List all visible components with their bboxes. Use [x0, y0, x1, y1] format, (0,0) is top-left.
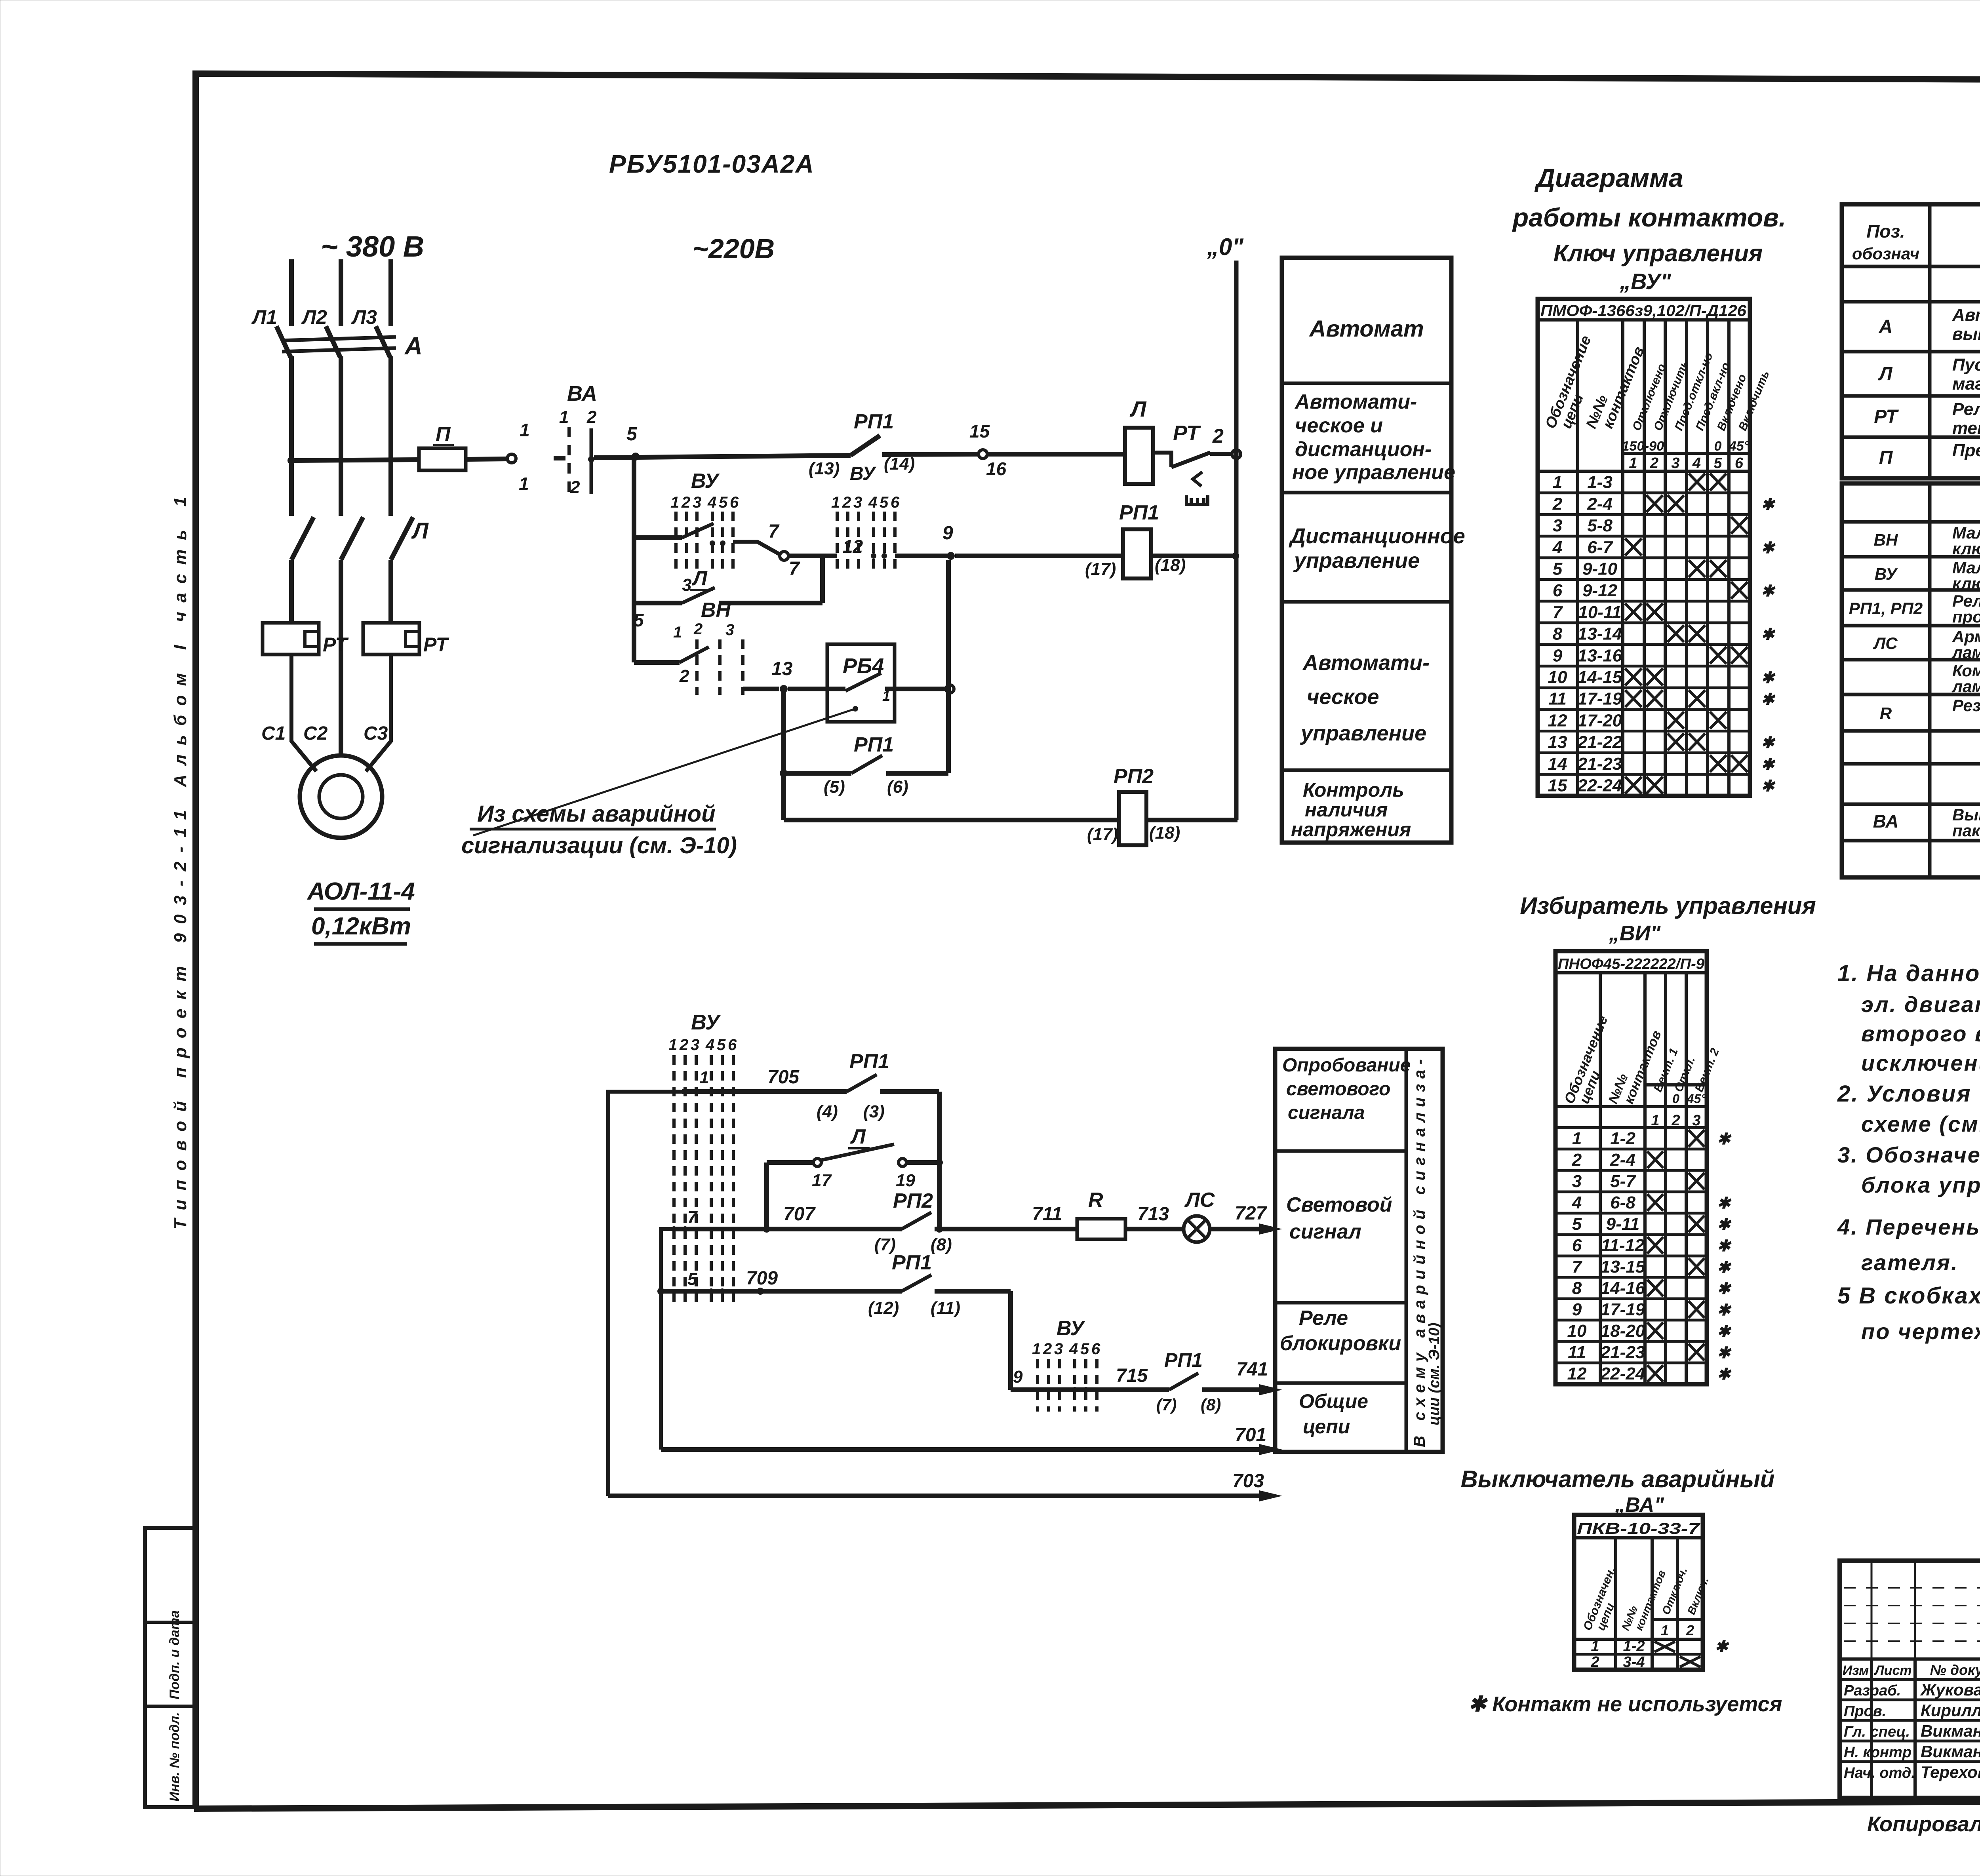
svg-text:блокировки: блокировки: [1280, 1332, 1401, 1355]
svg-text:(8): (8): [931, 1235, 952, 1254]
svg-text:1: 1: [1661, 1622, 1669, 1638]
svg-text:Реле: Реле: [1299, 1307, 1348, 1330]
emergency switch VA contact table: [1574, 1515, 1729, 1671]
svg-text:5: 5: [1553, 559, 1563, 579]
svg-text:Кириллова: Кириллова: [1921, 1701, 1980, 1720]
svg-text:707: 707: [783, 1204, 816, 1225]
svg-text:2: 2: [679, 1036, 688, 1054]
svg-text:2: 2: [1650, 455, 1658, 472]
svg-text:2: 2: [679, 666, 689, 686]
svg-text:(17): (17): [1085, 559, 1116, 579]
row 707: light signal: [671, 1189, 1077, 1254]
svg-text:6: 6: [730, 494, 739, 511]
svg-text:5: 5: [1713, 455, 1722, 472]
svg-text:(14): (14): [884, 454, 915, 474]
svg-text:„ВУ": „ВУ": [1619, 269, 1672, 294]
svg-text:11: 11: [1548, 689, 1567, 709]
svg-text:ВН: ВН: [1874, 531, 1898, 549]
margin stamp boxes: [145, 1528, 196, 1807]
svg-text:С3: С3: [364, 723, 388, 744]
svg-text:Разраб.: Разраб.: [1844, 1682, 1901, 1699]
svg-text:13-16: 13-16: [1578, 646, 1622, 665]
svg-text:Викманис: Викманис: [1921, 1742, 1980, 1761]
svg-text:РП1: РП1: [854, 733, 894, 756]
key VU contact table: [1538, 299, 1776, 796]
svg-text:7: 7: [1572, 1257, 1583, 1277]
svg-text:светового: светового: [1286, 1079, 1390, 1100]
svg-text:✱: ✱: [1761, 778, 1776, 795]
svg-text:Л1: Л1: [251, 306, 277, 328]
svg-text:РП1: РП1: [854, 410, 894, 433]
svg-text:блока управления.: блока управления.: [1861, 1172, 1980, 1197]
relay contact RP1 (5)-(6): [780, 733, 948, 797]
svg-text:2: 2: [842, 494, 851, 511]
svg-text:5: 5: [634, 610, 644, 630]
svg-text:✱: ✱: [1717, 1237, 1732, 1255]
wire to coil RP2: [784, 818, 1119, 822]
svg-text:Копировал: Тук: Копировал: Тук: [1867, 1812, 1980, 1836]
svg-text:Ключ управления: Ключ управления: [1554, 240, 1763, 266]
svg-text:15: 15: [969, 421, 990, 441]
svg-text:5: 5: [717, 1036, 726, 1054]
svg-text:тепловое: тепловое: [1952, 419, 1980, 438]
notes 1-5: [1837, 961, 1980, 1344]
motor M (AOL-11-4): [300, 755, 382, 838]
svg-text:7: 7: [789, 558, 800, 579]
svg-text:работы контактов.: работы контактов.: [1512, 203, 1786, 232]
svg-text:РП1: РП1: [1119, 501, 1159, 524]
svg-text:3: 3: [691, 1036, 699, 1054]
wire outer loop left: [608, 1092, 682, 1496]
svg-text:(7): (7): [1156, 1395, 1177, 1414]
svg-text:22-24: 22-24: [1600, 1364, 1645, 1383]
wire L2 feeder mid: [339, 356, 343, 516]
wire RB4 to riser V3: [885, 687, 946, 691]
svg-text:1: 1: [1553, 473, 1562, 492]
wire to node 15: [882, 454, 977, 455]
svg-text:705: 705: [767, 1067, 800, 1088]
svg-text:1: 1: [1572, 1129, 1582, 1148]
svg-text:150: 150: [1622, 439, 1645, 454]
svg-text:✱: ✱: [1717, 1280, 1732, 1298]
svg-text:ВУ: ВУ: [850, 463, 877, 484]
svg-text:4: 4: [705, 1036, 714, 1054]
wire pole3 to motor: [366, 655, 391, 771]
wire L3 feeder mid: [388, 356, 393, 516]
svg-text:✱: ✱: [1761, 691, 1776, 708]
title block: [1840, 1561, 1980, 1800]
svg-text:✱: ✱: [1761, 496, 1776, 513]
wire VN to node 13: [743, 687, 779, 691]
svg-text:6-8: 6-8: [1610, 1193, 1635, 1212]
svg-text:✱: ✱: [1717, 1323, 1732, 1340]
svg-text:Жукова: Жукова: [1920, 1680, 1980, 1699]
svg-text:(13): (13): [809, 459, 840, 478]
svg-text:Л2: Л2: [301, 306, 327, 328]
svg-text:5: 5: [880, 494, 889, 511]
function description column bottom: [1275, 1049, 1443, 1452]
svg-text:✱: ✱: [1717, 1344, 1732, 1362]
key VU contact group 2: [831, 494, 900, 569]
contactor L main contacts: [291, 517, 429, 560]
riser row709 to row715: [1008, 1291, 1013, 1390]
svg-text:Инв. № подл.: Инв. № подл.: [167, 1712, 182, 1802]
svg-text:Общие: Общие: [1299, 1390, 1368, 1412]
svg-text:6: 6: [1091, 1340, 1100, 1358]
svg-text:1: 1: [668, 1036, 677, 1054]
svg-text:1-2: 1-2: [1610, 1129, 1635, 1148]
title: contact operation diagram: [1512, 163, 1786, 294]
fuse P: [419, 423, 466, 470]
svg-text:✱: ✱: [1761, 669, 1776, 687]
svg-text:9-11: 9-11: [1606, 1214, 1640, 1234]
svg-text:13-15: 13-15: [1601, 1257, 1645, 1277]
svg-text:ЛС: ЛС: [1184, 1189, 1215, 1212]
node 9: [947, 552, 955, 560]
svg-text:13: 13: [771, 658, 793, 679]
junction on L1 for control tap: [287, 457, 295, 464]
svg-text:Автоматический: Автоматический: [1952, 305, 1980, 325]
svg-text:✱: ✱: [1717, 1259, 1732, 1276]
svg-text:~ 380 В: ~ 380 В: [321, 230, 424, 263]
node 7: [768, 521, 800, 579]
svg-text:5: 5: [1080, 1340, 1089, 1358]
svg-text:(17): (17): [1087, 825, 1118, 844]
svg-text:выключатель: выключатель: [1952, 324, 1980, 344]
svg-text:ВА: ВА: [567, 382, 597, 405]
resistor R: [1077, 1189, 1125, 1239]
svg-text:1: 1: [1032, 1340, 1041, 1358]
svg-text:2: 2: [570, 478, 580, 497]
svg-text:3. Обозначение „ О" соответ: 3. Обозначение „ О" соответствует заводс…: [1837, 1142, 1980, 1167]
svg-text:9-12: 9-12: [1582, 581, 1618, 600]
riser right of test row: [937, 1092, 942, 1229]
svg-text:дистанцион-: дистанцион-: [1295, 438, 1432, 461]
svg-text:713: 713: [1137, 1204, 1169, 1225]
circuit breaker A: [276, 326, 423, 360]
svg-text:✱ Контакт не используется: ✱ Контакт не используется: [1468, 1692, 1782, 1716]
svg-text:Л: Л: [850, 1125, 866, 1148]
svg-text:7: 7: [687, 1207, 698, 1227]
svg-text:управление: управление: [1293, 549, 1420, 573]
svg-text:ПКВ-10-33-7: ПКВ-10-33-7: [1577, 1520, 1700, 1537]
svg-text:7: 7: [768, 521, 780, 542]
svg-text:13: 13: [1548, 733, 1567, 752]
svg-text:А: А: [1879, 316, 1893, 337]
contactor L aux contact row: [767, 1125, 943, 1229]
svg-text:2: 2: [1686, 1622, 1694, 1638]
svg-text:4: 4: [1692, 455, 1701, 472]
wire to switch BA: [554, 456, 565, 460]
svg-text:А: А: [404, 333, 423, 360]
svg-text:1-3: 1-3: [1587, 473, 1613, 492]
svg-text:Л: Л: [411, 518, 429, 544]
row 715: blocking relay: [1011, 1317, 1282, 1414]
svg-text:10-11: 10-11: [1578, 603, 1621, 622]
svg-text:ческое: ческое: [1307, 685, 1379, 709]
svg-text:701: 701: [1235, 1425, 1266, 1446]
svg-text:4. Перечень аппаратов пр: 4. Перечень аппаратов приведен для одног…: [1837, 1214, 1980, 1239]
svg-text:цепи: цепи: [1303, 1416, 1350, 1438]
svg-text:5: 5: [719, 494, 728, 511]
svg-text:обознач: обознач: [1852, 244, 1919, 263]
svg-text:3: 3: [1054, 1340, 1063, 1358]
svg-text:2-4: 2-4: [1587, 494, 1613, 514]
title: selector VI: [1520, 892, 1816, 945]
svg-text:12: 12: [1548, 711, 1567, 730]
svg-text:АОЛ-11-4: АОЛ-11-4: [307, 878, 415, 905]
svg-text:Поз.: Поз.: [1866, 221, 1905, 242]
svg-text:715: 715: [1116, 1365, 1148, 1386]
node 15/16: [969, 421, 1007, 479]
svg-text:ВУ: ВУ: [1057, 1317, 1085, 1340]
svg-text:3: 3: [1572, 1172, 1582, 1191]
svg-text:Диаграмма: Диаграмма: [1534, 163, 1683, 192]
svg-text:(11): (11): [931, 1298, 960, 1318]
svg-text:9-10: 9-10: [1582, 559, 1618, 579]
svg-text:5-8: 5-8: [1587, 516, 1613, 535]
svg-text:709: 709: [746, 1268, 778, 1289]
svg-text:14: 14: [1548, 754, 1567, 774]
wire pole3 lower: [388, 560, 393, 623]
svg-text:✱: ✱: [1717, 1301, 1732, 1319]
svg-text:5 В скобках указаны номе: 5 В скобках указаны номера контактов рел…: [1837, 1283, 1980, 1309]
svg-text:Лист: Лист: [1873, 1663, 1911, 1678]
function description column top: [1282, 258, 1465, 843]
svg-text:5-7: 5-7: [1610, 1172, 1636, 1191]
contactor coil L: [1125, 396, 1153, 484]
svg-text:4: 4: [1572, 1193, 1582, 1212]
svg-text:6: 6: [1572, 1236, 1582, 1255]
svg-text:✱: ✱: [1717, 1130, 1732, 1148]
svg-text:✱: ✱: [1715, 1638, 1729, 1655]
svg-text:19: 19: [896, 1171, 915, 1190]
svg-text:второго вентилятора схема: второго вентилятора схема аналогична , з…: [1861, 1021, 1980, 1046]
svg-text:Л: Л: [1878, 363, 1893, 384]
svg-text:1: 1: [699, 1068, 709, 1087]
wire coil RP1 to bus: [1151, 554, 1236, 558]
svg-text:пакетно-кулачковый: пакетно-кулачковый: [1952, 821, 1980, 840]
riser V6 from node13 down: [781, 689, 786, 820]
svg-text:2: 2: [1212, 425, 1224, 447]
svg-text:сигнала: сигнала: [1288, 1102, 1365, 1123]
key VU contact group 1: [670, 470, 739, 595]
node 13: [780, 685, 788, 693]
svg-text:Пускатель: Пускатель: [1952, 355, 1980, 375]
svg-text:✱: ✱: [1761, 539, 1776, 557]
svg-text:21-23: 21-23: [1600, 1343, 1645, 1362]
svg-text:ции (см. Э-10): ции (см. Э-10): [1426, 1323, 1443, 1425]
svg-text:„0": „0": [1207, 234, 1244, 260]
svg-text:Реле: Реле: [1952, 400, 1980, 419]
svg-text:Нач. отд.: Нач. отд.: [1844, 1765, 1915, 1781]
svg-text:Л: Л: [691, 567, 708, 590]
svg-text:45°: 45°: [1729, 439, 1750, 454]
svg-text:10: 10: [1567, 1321, 1587, 1341]
svg-text:45°: 45°: [1687, 1092, 1706, 1106]
svg-text:РП2: РП2: [1114, 765, 1154, 788]
svg-text:711: 711: [1032, 1204, 1062, 1225]
svg-text:3: 3: [725, 621, 734, 639]
svg-text:21-23: 21-23: [1577, 754, 1622, 774]
svg-text:Предохранитель: Предохранитель: [1952, 441, 1980, 460]
svg-text:РТ: РТ: [423, 634, 449, 656]
svg-text:Гл. спец.: Гл. спец.: [1844, 1724, 1910, 1740]
svg-text:2: 2: [693, 620, 703, 638]
svg-text:6: 6: [891, 494, 900, 511]
svg-text:управление: управление: [1300, 721, 1426, 745]
svg-text:0: 0: [1672, 1092, 1679, 1106]
svg-text:3: 3: [1553, 516, 1562, 535]
svg-text:(12): (12): [868, 1298, 899, 1318]
svg-text:ВН: ВН: [701, 599, 731, 622]
selector VI contact table: [1555, 951, 1732, 1384]
svg-text:Подп. и дата: Подп. и дата: [167, 1610, 182, 1699]
svg-text:6: 6: [728, 1036, 737, 1054]
svg-text:№ докум.: № докум.: [1930, 1662, 1980, 1678]
svg-text:R: R: [1088, 1189, 1103, 1212]
svg-text:РБУ5101-03А2А: РБУ5101-03А2А: [609, 150, 815, 178]
svg-text:9: 9: [942, 523, 953, 544]
svg-text:Световой: Световой: [1286, 1193, 1392, 1216]
svg-text:17-19: 17-19: [1601, 1300, 1645, 1319]
svg-text:14-15: 14-15: [1578, 668, 1622, 687]
svg-text:3: 3: [853, 494, 862, 511]
wire group2 to node 9: [895, 554, 948, 558]
svg-text:ческое и: ческое и: [1295, 414, 1383, 437]
svg-text:5: 5: [626, 424, 638, 445]
thermal relay RT break contact: [1153, 421, 1224, 504]
svg-text:Н. контр: Н. контр: [1844, 1744, 1911, 1761]
wire node9 to coil RP1: [955, 554, 1123, 558]
svg-text:напряжения: напряжения: [1291, 818, 1411, 841]
interlock relay contact RB4: [827, 644, 895, 722]
wire node13 to RB4: [788, 687, 845, 691]
svg-text:10: 10: [1548, 668, 1567, 687]
wire RT to right bus: [1210, 452, 1232, 456]
svg-text:Из схемы аварийной: Из схемы аварийной: [477, 801, 716, 827]
svg-text:ВУ: ВУ: [691, 470, 720, 493]
svg-text:1: 1: [559, 407, 569, 427]
node 5: [632, 453, 640, 460]
svg-text:2: 2: [1043, 1340, 1052, 1358]
pointer from note to RB4: [473, 709, 855, 835]
svg-text:6: 6: [1553, 581, 1563, 600]
svg-text:✱: ✱: [1717, 1216, 1732, 1233]
svg-text:1: 1: [673, 624, 682, 641]
svg-text:схеме (см. Э-4) .: схеме (см. Э-4) .: [1861, 1111, 1980, 1136]
wire node7 to VU group2: [788, 554, 837, 558]
wire fuse to disconnect contact: [466, 459, 508, 459]
key VN contact group: [634, 599, 743, 695]
svg-text:✱: ✱: [1761, 582, 1776, 600]
svg-text:„ВИ": „ВИ": [1609, 921, 1661, 945]
svg-text:сигнализации (см. Э-10): сигнализации (см. Э-10): [461, 833, 737, 858]
svg-text:8: 8: [1553, 624, 1563, 644]
svg-text:(8): (8): [1201, 1395, 1221, 1414]
svg-text:РТ: РТ: [1874, 406, 1899, 427]
note: from alarm circuit: [461, 801, 737, 858]
wire BA to node 5: [594, 455, 851, 458]
svg-text:703: 703: [1232, 1471, 1264, 1492]
svg-text:Л3: Л3: [351, 306, 377, 328]
svg-text:П: П: [1879, 447, 1893, 468]
right bus (net 0): [1207, 234, 1244, 820]
svg-text:РП1: РП1: [1164, 1349, 1203, 1371]
svg-text:эл. двигателем первого приточн: эл. двигателем первого приточного вентил…: [1861, 992, 1980, 1017]
svg-text:6-7: 6-7: [1587, 538, 1613, 557]
svg-text:-90: -90: [1645, 439, 1664, 454]
svg-text:РП1: РП1: [892, 1251, 932, 1274]
svg-text:✱: ✱: [1717, 1195, 1732, 1212]
svg-text:Терехов: Терехов: [1921, 1763, 1980, 1781]
svg-text:5: 5: [1572, 1214, 1582, 1234]
wire left riser from node5: [632, 457, 636, 662]
svg-text:2: 2: [681, 494, 690, 511]
svg-text:РП1, РП2: РП1, РП2: [1849, 599, 1923, 618]
svg-text:ПМОФ-1366з9,102/П-Д126: ПМОФ-1366з9,102/П-Д126: [1540, 302, 1747, 320]
wire pole1 lower: [289, 560, 294, 623]
svg-text:741: 741: [1236, 1359, 1268, 1380]
svg-text:(4): (4): [817, 1102, 838, 1121]
svg-text:12: 12: [1567, 1364, 1587, 1383]
svg-text:9: 9: [1572, 1300, 1582, 1319]
svg-text:18-20: 18-20: [1601, 1321, 1645, 1341]
svg-text:✱: ✱: [1717, 1366, 1732, 1383]
svg-text:17-19: 17-19: [1578, 689, 1622, 709]
svg-text:17: 17: [812, 1171, 832, 1190]
relay contact RP1 (13)-(14): [809, 410, 915, 484]
svg-text:9: 9: [1013, 1367, 1023, 1387]
contactor L aux bypass row: [634, 556, 822, 630]
svg-text:727: 727: [1235, 1203, 1267, 1224]
svg-text:С2: С2: [303, 723, 328, 744]
wire L1 feeder top: [289, 259, 294, 326]
svg-text:РП2: РП2: [893, 1189, 933, 1212]
svg-text:Викманис: Викманис: [1921, 1722, 1980, 1740]
svg-text:14-16: 14-16: [1601, 1279, 1645, 1298]
svg-text:сигнал: сигнал: [1289, 1220, 1361, 1243]
relay coil RP1: [1085, 501, 1186, 579]
svg-text:Автомати-: Автомати-: [1302, 651, 1430, 675]
signal lamp LS: [1184, 1189, 1215, 1242]
svg-text:~220В: ~220В: [692, 233, 775, 264]
svg-text:Л: Л: [1129, 396, 1147, 421]
svg-text:Контроль: Контроль: [1303, 779, 1404, 801]
svg-text:(5): (5): [824, 777, 845, 797]
svg-text:21-22: 21-22: [1577, 733, 1622, 752]
svg-text:магнитный: магнитный: [1952, 374, 1980, 394]
svg-text:✱: ✱: [1761, 734, 1776, 752]
svg-text:Выключатель аварийный: Выключатель аварийный: [1461, 1466, 1775, 1492]
element list table: [1842, 204, 1980, 877]
svg-text:2-4: 2-4: [1610, 1150, 1635, 1170]
svg-text:ВА: ВА: [1873, 811, 1899, 831]
wire lamp out / 727: [1210, 1203, 1282, 1235]
svg-text:R: R: [1880, 704, 1892, 723]
svg-text:16: 16: [986, 459, 1007, 479]
thermal relay RT heater pole1: [263, 623, 349, 656]
wire L3 feeder top: [388, 259, 393, 326]
wire L1 feeder mid: [289, 356, 294, 516]
svg-text:РТ: РТ: [1173, 421, 1201, 445]
wire pole1 to motor: [291, 655, 316, 771]
svg-text:2: 2: [1590, 1654, 1599, 1671]
svg-text:4: 4: [1069, 1340, 1078, 1358]
wire L2 feeder top: [339, 259, 343, 326]
svg-text:1: 1: [1629, 455, 1637, 472]
svg-text:2. Условия блокировки д: 2. Условия блокировки даны в функциональ…: [1837, 1081, 1980, 1107]
